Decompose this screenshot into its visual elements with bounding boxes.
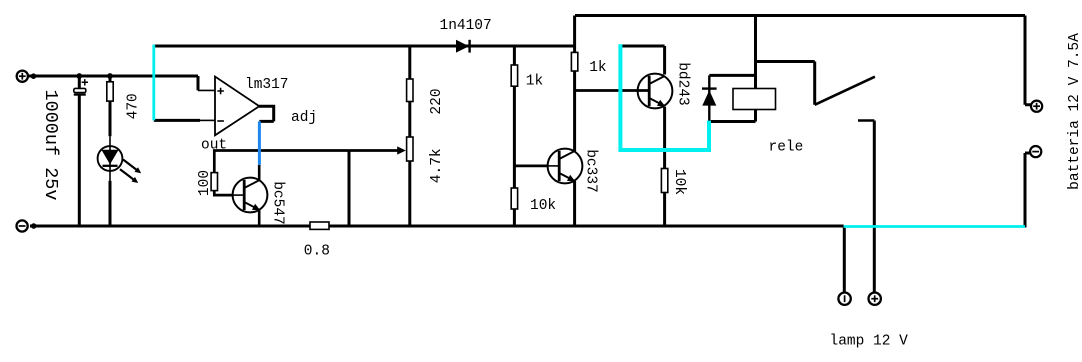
svg-text:10k: 10k: [671, 169, 687, 195]
svg-text:rele: rele: [769, 140, 804, 156]
svg-text:out: out: [201, 138, 227, 154]
svg-text:1n4107: 1n4107: [440, 18, 492, 34]
svg-text:lamp 12 V: lamp 12 V: [830, 333, 909, 349]
svg-text:bc337: bc337: [583, 149, 599, 193]
svg-text:4.7k: 4.7k: [429, 148, 445, 183]
svg-text:adj: adj: [291, 110, 317, 126]
svg-text:1k: 1k: [589, 60, 606, 76]
svg-text:bd243: bd243: [675, 62, 691, 106]
svg-text:lm317: lm317: [245, 77, 289, 93]
svg-text:470: 470: [126, 93, 142, 119]
svg-text:100: 100: [197, 170, 213, 196]
svg-text:1000uf 25v: 1000uf 25v: [40, 89, 61, 200]
svg-text:220: 220: [429, 88, 445, 114]
svg-text:0.8: 0.8: [304, 244, 330, 260]
svg-text:1k: 1k: [526, 74, 543, 90]
svg-text:10k: 10k: [530, 198, 556, 214]
svg-text:bc547: bc547: [270, 181, 286, 225]
svg-text:batteria 12 V 7.5A: batteria 12 V 7.5A: [1067, 33, 1082, 190]
